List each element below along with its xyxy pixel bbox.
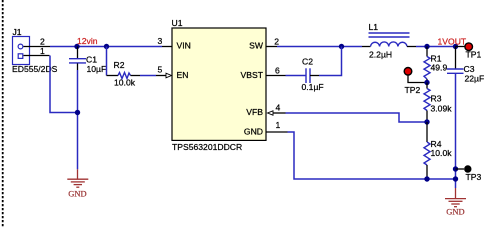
svg-text:0.1µF: 0.1µF <box>302 82 324 92</box>
capacitor C3 <box>447 47 464 189</box>
wire VBST to C2 <box>286 75 306 77</box>
wire J1 pin1 down and right to ground net <box>50 56 78 113</box>
wire to R2 <box>107 75 119 77</box>
svg-text:1VOUT: 1VOUT <box>438 37 467 47</box>
wire GND net down and along bottom <box>288 132 456 179</box>
svg-text:TPS563201DDCR: TPS563201DDCR <box>172 142 242 152</box>
resistor R2 <box>118 73 131 79</box>
test point TP2 <box>404 68 412 76</box>
resistor R4 <box>424 122 430 179</box>
wire C1 to ground junction <box>77 70 79 169</box>
connector J1 <box>13 37 51 65</box>
wire VFB net to R3/R4 junction <box>286 113 428 122</box>
node ground rail/C3 junction <box>453 176 458 181</box>
node R3/R4/VFB junction <box>424 119 429 124</box>
svg-text:TP3: TP3 <box>466 172 482 182</box>
svg-text:GND: GND <box>68 188 86 198</box>
svg-text:SW: SW <box>249 40 264 50</box>
svg-text:J1: J1 <box>13 27 22 37</box>
svg-text:4: 4 <box>276 103 281 113</box>
wire SW net to L1 <box>277 46 362 48</box>
capacitor C2 <box>306 68 310 83</box>
svg-text:22µF: 22µF <box>465 74 485 84</box>
svg-text:VBST: VBST <box>241 70 264 80</box>
svg-text:49.9: 49.9 <box>431 63 448 73</box>
wire C2 to SW node <box>310 47 342 76</box>
wire L1 to VOUT node <box>416 46 456 48</box>
svg-text:TP2: TP2 <box>405 85 421 95</box>
ground symbol left <box>67 169 88 187</box>
node R1/R3 junction <box>424 80 429 85</box>
node junction C1/J1 ground <box>75 110 80 115</box>
resistor R3 <box>424 83 430 123</box>
node junction at EN branch <box>104 44 109 49</box>
svg-text:EN: EN <box>177 70 189 80</box>
svg-text:10µF: 10µF <box>87 64 107 74</box>
test point TP3 <box>464 165 471 172</box>
svg-text:12vin: 12vin <box>77 36 98 46</box>
svg-text:C2: C2 <box>302 57 313 67</box>
svg-text:U1: U1 <box>172 18 183 28</box>
svg-text:L1: L1 <box>369 22 379 32</box>
svg-text:R3: R3 <box>431 94 442 104</box>
capacitor C1 <box>69 47 86 71</box>
wire EN branch down <box>106 47 108 76</box>
node VOUT junction at C3 <box>453 44 458 49</box>
resistor R1 <box>424 47 430 83</box>
svg-text:10.0k: 10.0k <box>114 78 136 88</box>
svg-text:3.09k: 3.09k <box>431 104 453 114</box>
svg-text:5: 5 <box>158 65 163 75</box>
svg-text:C1: C1 <box>86 55 97 65</box>
ground symbol right <box>445 188 466 207</box>
node R4/ground rail junction <box>424 176 429 181</box>
svg-text:2: 2 <box>40 37 45 47</box>
svg-text:GND: GND <box>446 206 464 216</box>
wire VFB pin stub with arrow <box>268 111 286 115</box>
svg-text:R2: R2 <box>114 60 125 70</box>
svg-text:GND: GND <box>244 126 263 136</box>
EN pin input arrow <box>166 73 172 78</box>
svg-text:6: 6 <box>275 66 280 76</box>
wire TP2 to R1/R3 junction <box>408 75 427 82</box>
svg-text:3: 3 <box>158 36 163 46</box>
test point TP1 <box>465 43 473 51</box>
wire R2 to EN pin <box>131 75 167 77</box>
node TP3 junction <box>453 166 458 171</box>
IC U1 body TPS563201DDCR <box>172 28 266 140</box>
svg-text:2.2µH: 2.2µH <box>369 50 392 60</box>
node SW/C2 junction <box>339 44 344 49</box>
svg-text:1: 1 <box>276 120 281 130</box>
inductor L1 <box>362 33 416 47</box>
svg-text:1: 1 <box>40 46 45 56</box>
svg-text:VIN: VIN <box>177 40 191 50</box>
svg-text:TP1: TP1 <box>466 50 482 60</box>
wire VOUT to TP1 <box>456 46 465 48</box>
wire SW pin stub <box>266 46 277 48</box>
node VOUT junction at R1 <box>424 44 429 49</box>
node 12vin junction at C1 <box>74 44 79 49</box>
svg-text:C3: C3 <box>464 64 475 74</box>
wire VBST pin stub <box>266 75 286 77</box>
wire TP3 stub <box>456 168 465 170</box>
svg-text:ED555/2DS: ED555/2DS <box>12 64 58 74</box>
wire GND pin stub <box>266 131 288 133</box>
svg-text:VFB: VFB <box>246 107 263 117</box>
wire 12vin net: J1 pin2 to VIN <box>50 46 172 48</box>
svg-text:2: 2 <box>274 36 279 46</box>
svg-text:10.0k: 10.0k <box>431 148 453 158</box>
